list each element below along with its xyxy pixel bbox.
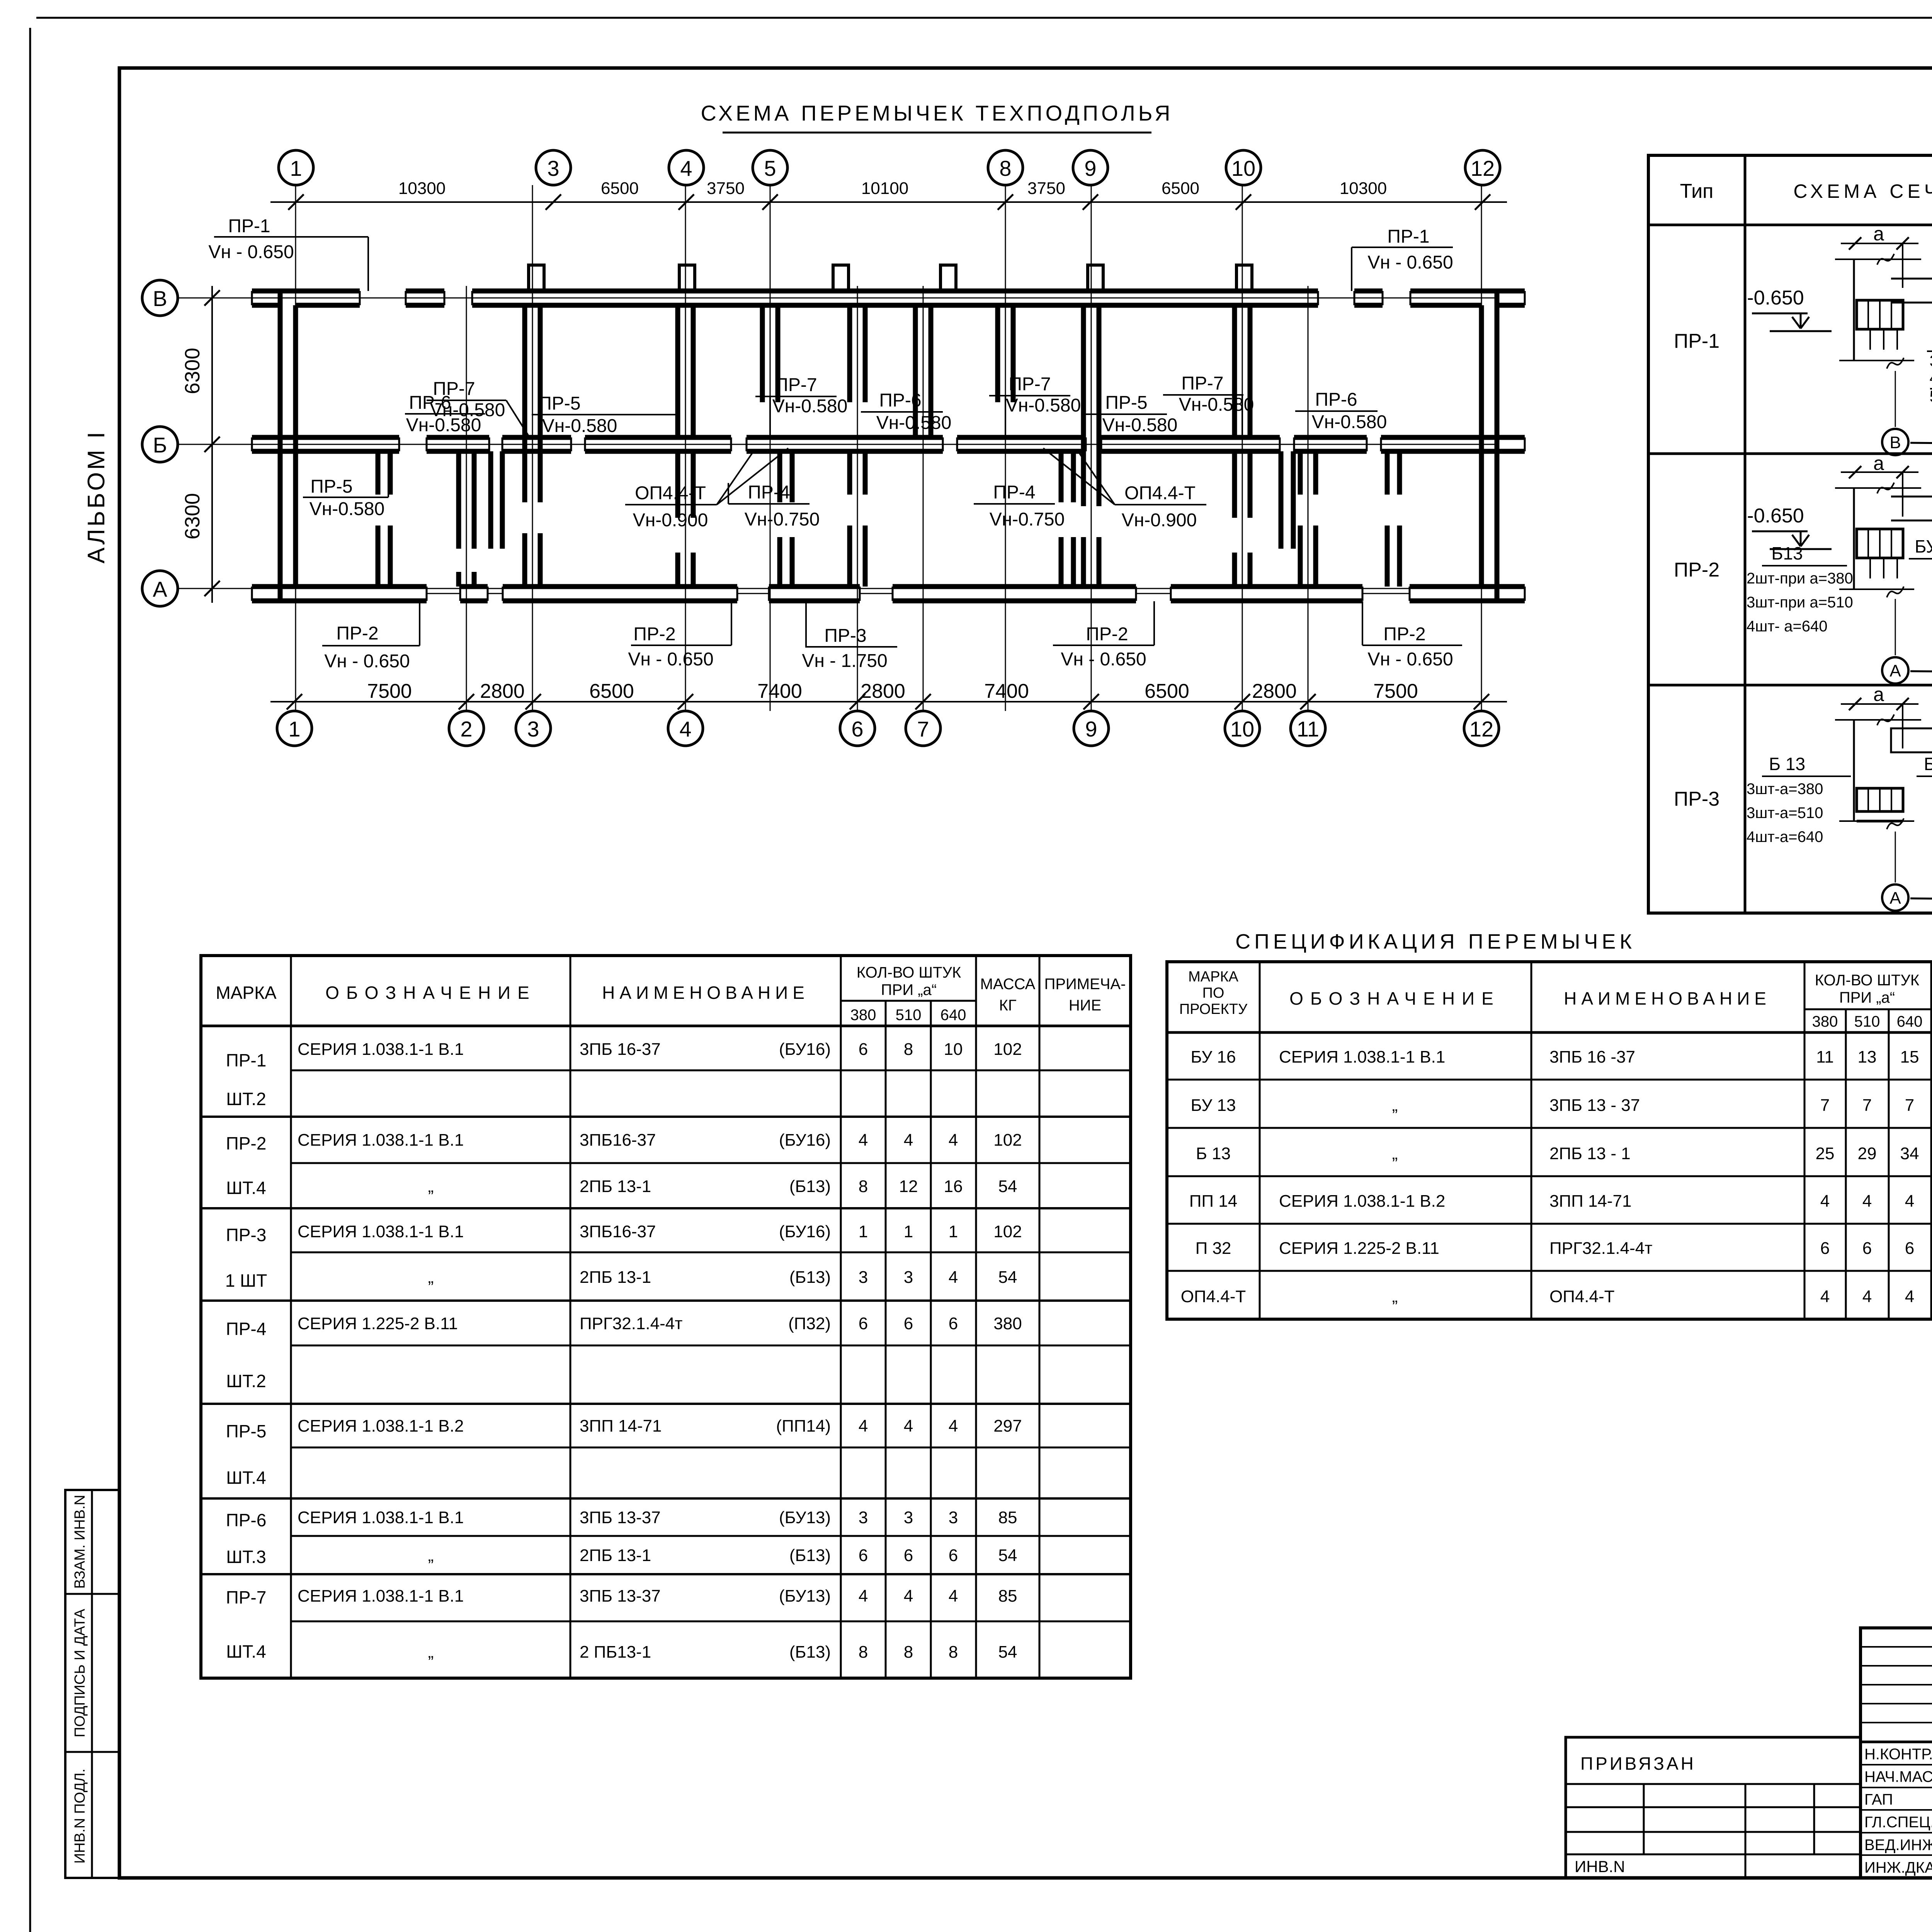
svg-text:640: 640 [940, 1007, 966, 1024]
title block frame [1861, 1628, 1932, 1878]
svg-text:102: 102 [993, 1131, 1022, 1150]
svg-text:Б 13: Б 13 [1769, 754, 1805, 774]
top dimension line [270, 201, 1507, 203]
svg-text:ШТ.4: ШТ.4 [226, 1641, 266, 1662]
svg-text:6: 6 [859, 1314, 868, 1333]
svg-text:ПР-2: ПР-2 [633, 624, 675, 645]
svg-text:НАИМЕНОВАНИЕ: НАИМЕНОВАНИЕ [602, 983, 809, 1003]
svg-text:КГ: КГ [999, 997, 1017, 1014]
label ПР-4 right [974, 482, 1065, 530]
svg-text:„: „ [428, 1177, 434, 1196]
svg-text:3ПБ 13-37: 3ПБ 13-37 [580, 1587, 661, 1605]
svg-text:85: 85 [998, 1508, 1017, 1527]
svg-text:3750: 3750 [707, 179, 745, 198]
svg-text:МАРКА: МАРКА [216, 983, 276, 1003]
svg-text:4шт- а=640: 4шт- а=640 [1747, 618, 1827, 635]
svg-text:4: 4 [1862, 1287, 1872, 1306]
svg-text:ВЗАМ. ИНВ.N: ВЗАМ. ИНВ.N [72, 1495, 88, 1588]
svg-text:СЕРИЯ 1.038.1-1 В.1: СЕРИЯ 1.038.1-1 В.1 [298, 1222, 464, 1241]
svg-text:МАССА: МАССА [980, 976, 1036, 993]
svg-text:(Б13): (Б13) [789, 1643, 831, 1662]
svg-text:510: 510 [1854, 1013, 1880, 1030]
label ПР-2 bottom 1 [322, 601, 420, 672]
svg-text:ПР-7: ПР-7 [1009, 374, 1051, 395]
svg-text:54: 54 [998, 1268, 1017, 1287]
svg-text:Vн-0.750: Vн-0.750 [990, 509, 1065, 530]
svg-text:Vн-0.900: Vн-0.900 [633, 510, 708, 531]
exterior wall row А outer(lower) line [280, 599, 427, 604]
svg-text:2800: 2800 [1252, 680, 1297, 702]
svg-text:1: 1 [288, 717, 300, 741]
svg-text:6: 6 [1862, 1239, 1872, 1258]
svg-text:(БУ16): (БУ16) [779, 1131, 831, 1150]
svg-text:4: 4 [859, 1417, 868, 1435]
label ПР-6 left [405, 393, 485, 435]
svg-text:1: 1 [949, 1222, 958, 1241]
label ПР-7 axis3 [427, 379, 529, 436]
svg-text:БУ 16: БУ 16 [1924, 754, 1932, 774]
svg-text:ПР-6: ПР-6 [879, 390, 921, 411]
svg-text:54: 54 [998, 1643, 1017, 1662]
svg-text:-0.650: -0.650 [1747, 505, 1804, 527]
svg-text:3ПБ16-37: 3ПБ16-37 [580, 1131, 656, 1150]
svg-text:ШТ.2: ШТ.2 [226, 1371, 266, 1391]
svg-text:„: „ [428, 1268, 434, 1287]
svg-text:ПР-4: ПР-4 [226, 1319, 267, 1339]
svg-text:ПР-4: ПР-4 [993, 482, 1035, 503]
svg-text:5 ШТ ПРИ а=640: 5 ШТ ПРИ а=640 [1930, 387, 1932, 405]
svg-text:ПР-4: ПР-4 [748, 482, 790, 503]
outer thin border [36, 17, 1932, 19]
svg-text:3шт-а=510: 3шт-а=510 [1747, 804, 1823, 821]
svg-text:1: 1 [859, 1222, 868, 1241]
svg-text:ШТ.4: ШТ.4 [226, 1178, 266, 1198]
svg-text:СЕРИЯ 1.225-2 В.11: СЕРИЯ 1.225-2 В.11 [298, 1314, 458, 1333]
svg-text:3ПБ 16 -37: 3ПБ 16 -37 [1549, 1048, 1635, 1066]
svg-text:ОБОЗНАЧЕНИЕ: ОБОЗНАЧЕНИЕ [1289, 988, 1500, 1009]
svg-text:3шт-а=380: 3шт-а=380 [1747, 781, 1823, 798]
svg-text:4: 4 [949, 1417, 958, 1435]
svg-text:3ПП 14-71: 3ПП 14-71 [580, 1417, 662, 1435]
svg-text:ПР-2: ПР-2 [1674, 559, 1719, 581]
svg-text:380: 380 [1812, 1013, 1838, 1030]
svg-text:3: 3 [904, 1508, 913, 1527]
svg-text:Vн - 0.650: Vн - 0.650 [1367, 252, 1453, 273]
svg-text:6: 6 [904, 1546, 913, 1565]
svg-text:4: 4 [904, 1131, 913, 1150]
svg-text:12: 12 [1469, 717, 1493, 741]
svg-text:ПРИМЕЧА-: ПРИМЕЧА- [1044, 976, 1126, 993]
svg-text:3: 3 [527, 717, 539, 741]
svg-text:7: 7 [917, 717, 929, 741]
label ПР-6 mid [861, 390, 951, 433]
svg-text:3: 3 [859, 1508, 868, 1527]
svg-text:(БУ13): (БУ13) [779, 1508, 831, 1527]
svg-text:НИЕ: НИЕ [1069, 997, 1101, 1014]
svg-text:102: 102 [993, 1222, 1022, 1241]
svg-text:МАРКА: МАРКА [1188, 969, 1238, 985]
svg-text:ПО: ПО [1202, 985, 1225, 1001]
svg-text:ИНЖ.ДКАТ.: ИНЖ.ДКАТ. [1864, 1859, 1932, 1876]
svg-text:ПР-3: ПР-3 [1674, 788, 1719, 810]
svg-text:А: А [153, 577, 167, 601]
svg-text:2ПБ 13-1: 2ПБ 13-1 [580, 1268, 651, 1287]
svg-text:4: 4 [859, 1131, 868, 1150]
svg-text:4: 4 [1905, 1192, 1914, 1211]
svg-text:8: 8 [859, 1177, 868, 1196]
vent protrusions on wall В [529, 265, 544, 291]
interior wall row Б lower line [280, 449, 399, 454]
svg-text:ПП 14: ПП 14 [1189, 1192, 1237, 1211]
svg-text:9: 9 [1084, 156, 1096, 180]
svg-text:4: 4 [1820, 1287, 1830, 1306]
svg-text:1 ШТ: 1 ШТ [225, 1270, 267, 1291]
svg-text:3 ШТ ПРИ а=380: 3 ШТ ПРИ а=380 [1930, 352, 1932, 370]
svg-text:(Б13): (Б13) [789, 1177, 831, 1196]
svg-text:6: 6 [1905, 1239, 1914, 1258]
svg-text:4: 4 [1905, 1287, 1914, 1306]
label ПР-6 right [1295, 389, 1387, 432]
svg-text:3ПБ 13 - 37: 3ПБ 13 - 37 [1549, 1096, 1640, 1115]
svg-text:3ПП 14-71: 3ПП 14-71 [1549, 1192, 1631, 1211]
svg-text:4: 4 [1862, 1192, 1872, 1211]
svg-text:(БУ13): (БУ13) [779, 1587, 831, 1605]
svg-text:ПР-2: ПР-2 [1086, 624, 1128, 645]
svg-text:ПР-1: ПР-1 [1674, 330, 1719, 352]
svg-text:15: 15 [1900, 1048, 1919, 1066]
section ПР-2 sketch [1747, 452, 1932, 685]
svg-text:1: 1 [904, 1222, 913, 1241]
svg-text:СЕРИЯ 1.225-2 В.11: СЕРИЯ 1.225-2 В.11 [1279, 1239, 1439, 1258]
svg-text:4: 4 [949, 1268, 958, 1287]
svg-text:В: В [153, 286, 167, 311]
svg-text:4шт-а=640: 4шт-а=640 [1747, 828, 1823, 845]
svg-text:7500: 7500 [367, 680, 412, 702]
svg-text:4: 4 [680, 156, 692, 180]
svg-text:ПР-5: ПР-5 [226, 1421, 267, 1441]
svg-text:6: 6 [851, 717, 863, 741]
svg-text:1: 1 [290, 156, 302, 180]
privyazan table [1566, 1737, 1861, 1878]
label ПР-4 left [728, 482, 820, 530]
svg-text:380: 380 [850, 1007, 876, 1024]
svg-text:ПР-7: ПР-7 [433, 379, 475, 399]
svg-text:„: „ [1392, 1144, 1398, 1163]
svg-text:510: 510 [896, 1007, 922, 1024]
svg-text:ИНВ.N ПОДЛ.: ИНВ.N ПОДЛ. [72, 1769, 88, 1864]
svg-text:Б13: Б13 [1771, 543, 1803, 563]
svg-text:ШТ.3: ШТ.3 [226, 1547, 266, 1567]
left spec table frame [201, 956, 1131, 1678]
svg-text:3ПБ 16-37: 3ПБ 16-37 [580, 1040, 661, 1059]
svg-text:а: а [1873, 223, 1884, 245]
svg-text:СЕРИЯ 1.038.1-1 В.1: СЕРИЯ 1.038.1-1 В.1 [298, 1587, 464, 1605]
bottom dimension line [270, 701, 1507, 702]
svg-text:А: А [1889, 889, 1901, 908]
label ПР-7 axis10 [1163, 373, 1254, 436]
svg-text:6: 6 [949, 1314, 958, 1333]
svg-text:БУ 13: БУ 13 [1191, 1096, 1236, 1115]
svg-text:29: 29 [1858, 1144, 1877, 1163]
svg-text:ПРГ32.1.4-4т: ПРГ32.1.4-4т [1549, 1239, 1652, 1258]
label ПР-1 left [208, 216, 368, 291]
svg-text:6500: 6500 [1162, 179, 1199, 198]
label ПР-2 bottom 4 [1362, 601, 1462, 670]
svg-text:ГЛ.СПЕЦ.: ГЛ.СПЕЦ. [1864, 1814, 1932, 1831]
svg-text:10100: 10100 [861, 179, 908, 198]
svg-text:Б 13: Б 13 [1196, 1144, 1231, 1163]
svg-text:6: 6 [904, 1314, 913, 1333]
svg-text:Н.КОНТР.: Н.КОНТР. [1864, 1746, 1932, 1763]
svg-text:ПР-7: ПР-7 [226, 1587, 267, 1607]
exterior wall row В outer line [280, 289, 360, 294]
svg-text:П 32: П 32 [1196, 1239, 1231, 1258]
svg-text:8: 8 [949, 1643, 958, 1662]
svg-text:ПР-1: ПР-1 [226, 1050, 267, 1070]
label ПР-1 right [1352, 226, 1453, 291]
svg-text:3: 3 [547, 156, 559, 180]
svg-text:СЕРИЯ 1.038.1-1 В.1: СЕРИЯ 1.038.1-1 В.1 [1279, 1048, 1445, 1066]
wall Б door end caps [398, 437, 400, 451]
svg-text:ПРИВЯЗАН: ПРИВЯЗАН [1580, 1753, 1696, 1774]
svg-text:ПР-1: ПР-1 [1387, 226, 1429, 247]
svg-text:2800: 2800 [480, 680, 525, 702]
svg-text:Vн - 0.650: Vн - 0.650 [1061, 649, 1146, 670]
svg-text:7: 7 [1820, 1096, 1830, 1115]
svg-text:ПРОЕКТУ: ПРОЕКТУ [1179, 1001, 1248, 1017]
svg-text:10: 10 [1230, 717, 1254, 741]
svg-text:5: 5 [764, 156, 776, 180]
svg-text:640: 640 [1897, 1013, 1923, 1030]
svg-text:ОП4.4-Т: ОП4.4-Т [1549, 1287, 1615, 1306]
svg-text:102: 102 [993, 1040, 1022, 1059]
svg-text:(П32): (П32) [788, 1314, 831, 1333]
svg-text:3750: 3750 [1027, 179, 1065, 198]
vertical axis lines [295, 185, 296, 711]
svg-text:СЕРИЯ 1.038.1-1 В.2: СЕРИЯ 1.038.1-1 В.2 [1279, 1192, 1445, 1211]
svg-text:8: 8 [904, 1643, 913, 1662]
svg-text:(Б13): (Б13) [789, 1268, 831, 1287]
svg-text:(БУ16): (БУ16) [779, 1222, 831, 1241]
svg-text:380: 380 [993, 1314, 1022, 1333]
svg-text:3шт-при а=510: 3шт-при а=510 [1747, 594, 1853, 611]
svg-text:ПР-2: ПР-2 [226, 1133, 267, 1153]
svg-text:БУ 16: БУ 16 [1191, 1048, 1236, 1066]
svg-text:4: 4 [679, 717, 691, 741]
svg-text:Vн-0.750: Vн-0.750 [745, 509, 820, 530]
svg-text:ПР-7: ПР-7 [775, 375, 817, 395]
svg-text:7500: 7500 [1373, 680, 1418, 702]
svg-text:Vн-0.580: Vн-0.580 [430, 400, 505, 420]
svg-text:2шт-при а=380: 2шт-при а=380 [1747, 570, 1853, 587]
svg-text:ОП4.4-Т: ОП4.4-Т [1124, 483, 1196, 503]
svg-text:АЛЬБОМ I: АЛЬБОМ I [83, 430, 110, 563]
svg-text:ПР-3: ПР-3 [226, 1225, 267, 1245]
svg-text:7: 7 [1905, 1096, 1914, 1115]
svg-text:Vн - 1.750: Vн - 1.750 [802, 651, 887, 671]
svg-text:ПР-3: ПР-3 [824, 626, 866, 646]
svg-text:Vн-0.580: Vн-0.580 [876, 413, 952, 433]
label ПР-5 right [1086, 393, 1177, 435]
svg-text:а: а [1873, 452, 1884, 474]
svg-text:2ПБ 13 - 1: 2ПБ 13 - 1 [1549, 1144, 1631, 1163]
svg-text:СЕРИЯ 1.038.1-1 В.1: СЕРИЯ 1.038.1-1 В.1 [298, 1040, 464, 1059]
svg-text:3ПБ 13-37: 3ПБ 13-37 [580, 1508, 661, 1527]
svg-text:Vн-0.580: Vн-0.580 [772, 396, 848, 417]
bottom grid circles [277, 711, 312, 746]
interior wall row Б upper line [280, 435, 399, 440]
svg-text:ОБОЗНАЧЕНИЕ: ОБОЗНАЧЕНИЕ [325, 983, 536, 1003]
svg-text:25: 25 [1816, 1144, 1835, 1163]
svg-text:(БУ16): (БУ16) [779, 1040, 831, 1059]
svg-text:34: 34 [1900, 1144, 1919, 1163]
svg-text:„: „ [1392, 1096, 1398, 1115]
svg-text:ПРИ „а“: ПРИ „а“ [881, 981, 937, 998]
svg-text:6: 6 [1820, 1239, 1830, 1258]
label ОП4.4-Т right [1078, 451, 1206, 531]
middle spec table frame [1167, 962, 1932, 1319]
svg-text:3: 3 [859, 1268, 868, 1287]
svg-text:ПР-6: ПР-6 [1315, 389, 1357, 410]
section ПР-1 sketch [1747, 223, 1932, 457]
svg-text:8: 8 [904, 1040, 913, 1059]
left grid circles [142, 280, 178, 316]
svg-text:12: 12 [899, 1177, 918, 1196]
svg-text:ИНВ.N: ИНВ.N [1575, 1857, 1625, 1876]
svg-text:10: 10 [1231, 156, 1255, 180]
svg-text:12: 12 [1471, 156, 1495, 180]
svg-text:13: 13 [1858, 1048, 1877, 1066]
svg-text:2: 2 [460, 717, 472, 741]
svg-text:ГАП: ГАП [1864, 1791, 1893, 1808]
svg-text:6500: 6500 [589, 680, 634, 702]
svg-text:Тип: Тип [1680, 180, 1714, 202]
vertical walls [278, 291, 283, 601]
svg-text:ПР-7: ПР-7 [1181, 373, 1223, 394]
svg-text:ВЕД.ИНЖ.: ВЕД.ИНЖ. [1864, 1837, 1932, 1854]
svg-text:ПР-2: ПР-2 [1383, 624, 1425, 645]
svg-text:ПРИ „а“: ПРИ „а“ [1839, 989, 1895, 1006]
svg-text:СПЕЦИФИКАЦИЯ ПЕРЕМЫЧЕК: СПЕЦИФИКАЦИЯ ПЕРЕМЫЧЕК [1235, 930, 1636, 953]
left margin rotated boxes [65, 1490, 119, 1878]
svg-text:-0.650: -0.650 [1747, 287, 1804, 309]
svg-text:2 ПБ13-1: 2 ПБ13-1 [580, 1643, 651, 1662]
svg-text:3: 3 [904, 1268, 913, 1287]
svg-text:НАИМЕНОВАНИЕ: НАИМЕНОВАНИЕ [1564, 988, 1771, 1009]
section table 1 frame [1648, 155, 1932, 913]
svg-text:2ПБ 13-1: 2ПБ 13-1 [580, 1177, 651, 1196]
svg-text:2800: 2800 [861, 680, 905, 702]
svg-text:„: „ [428, 1546, 434, 1565]
left dimension line [211, 286, 213, 603]
svg-text:КОЛ-ВО ШТУК: КОЛ-ВО ШТУК [1815, 972, 1920, 989]
svg-text:4: 4 [859, 1587, 868, 1605]
wall А opening thin lines [427, 593, 460, 594]
svg-text:Vн-0.580: Vн-0.580 [1312, 412, 1387, 432]
svg-text:11: 11 [1297, 717, 1319, 741]
exterior wall row В inner line [296, 303, 360, 308]
svg-text:4: 4 [949, 1131, 958, 1150]
svg-text:4: 4 [904, 1417, 913, 1435]
svg-text:4: 4 [949, 1587, 958, 1605]
svg-text:ШТ.2: ШТ.2 [226, 1089, 266, 1109]
svg-text:СХЕМА СЕЧЕНИЯ: СХЕМА СЕЧЕНИЯ [1793, 180, 1932, 202]
horizontal axis lines [178, 298, 1497, 299]
svg-text:10300: 10300 [398, 179, 446, 198]
svg-text:ОП4.4-Т: ОП4.4-Т [635, 483, 706, 503]
svg-text:10300: 10300 [1340, 179, 1387, 198]
svg-text:297: 297 [993, 1417, 1022, 1435]
svg-text:6300: 6300 [181, 348, 204, 394]
label ПР-7 axis8 [989, 374, 1081, 436]
svg-text:54: 54 [998, 1177, 1017, 1196]
svg-text:Vн - 0.650: Vн - 0.650 [324, 651, 410, 672]
svg-text:А: А [1889, 662, 1901, 680]
section ПР-3 sketch [1747, 684, 1932, 913]
svg-text:8: 8 [859, 1643, 868, 1662]
svg-text:а: а [1873, 684, 1884, 705]
svg-text:6300: 6300 [181, 493, 204, 539]
svg-text:Vн - 0.650: Vн - 0.650 [628, 649, 713, 670]
svg-text:СЕРИЯ 1.038.1-1 В.1: СЕРИЯ 1.038.1-1 В.1 [298, 1131, 464, 1150]
svg-text:6: 6 [859, 1040, 868, 1059]
label ПР-2 bottom 2 [628, 601, 731, 670]
svg-text:Vн-0.580: Vн-0.580 [1006, 395, 1081, 416]
svg-text:Vн-0.580: Vн-0.580 [542, 416, 617, 436]
exterior wall row А inner(upper) line [280, 584, 427, 589]
svg-text:ПР-5: ПР-5 [1105, 393, 1147, 413]
svg-text:6: 6 [949, 1546, 958, 1565]
svg-text:НАЧ.МАСТ.: НАЧ.МАСТ. [1864, 1769, 1932, 1786]
svg-text:В: В [1889, 433, 1901, 452]
svg-text:Vн-0.900: Vн-0.900 [1122, 510, 1197, 531]
label ПР-3 bottom [802, 601, 897, 671]
svg-text:54: 54 [998, 1546, 1017, 1565]
svg-text:6: 6 [859, 1546, 868, 1565]
svg-text:„: „ [428, 1643, 434, 1662]
svg-text:ПР-2: ПР-2 [336, 623, 378, 644]
svg-text:БУ16: БУ16 [1915, 536, 1932, 556]
svg-text:СЕРИЯ 1.038.1-1 В.2: СЕРИЯ 1.038.1-1 В.2 [298, 1417, 464, 1435]
svg-text:9: 9 [1085, 717, 1097, 741]
svg-text:СХЕМА ПЕРЕМЫЧЕК ТЕХПОДПОЛЬЯ: СХЕМА ПЕРЕМЫЧЕК ТЕХПОДПОЛЬЯ [701, 101, 1173, 125]
wall В window thin lines [360, 298, 406, 299]
label ПР-5 mid-left [532, 393, 677, 436]
label ПР-5 lower-left [303, 453, 388, 519]
svg-text:4 ШТ ПРИ а=510: 4 ШТ ПРИ а=510 [1930, 369, 1932, 387]
svg-text:6500: 6500 [601, 179, 639, 198]
label ПР-7 axis5 [755, 375, 847, 436]
wall end tabs left/right [252, 289, 280, 294]
svg-text:16: 16 [944, 1177, 963, 1196]
svg-text:7400: 7400 [757, 680, 802, 702]
left spec table header row [201, 1025, 1131, 1027]
top grid circles [279, 150, 313, 185]
svg-text:3ПБ16-37: 3ПБ16-37 [580, 1222, 656, 1241]
svg-text:СЕРИЯ 1.038.1-1 В.1: СЕРИЯ 1.038.1-1 В.1 [298, 1508, 464, 1527]
svg-text:85: 85 [998, 1587, 1017, 1605]
svg-text:Vн - 0.650: Vн - 0.650 [1367, 649, 1453, 670]
svg-text:3: 3 [949, 1508, 958, 1527]
svg-text:4: 4 [904, 1587, 913, 1605]
svg-text:(Б13): (Б13) [789, 1546, 831, 1565]
svg-text:11: 11 [1816, 1048, 1834, 1066]
svg-text:(ПП14): (ПП14) [776, 1417, 831, 1435]
svg-text:4: 4 [1820, 1192, 1830, 1211]
svg-text:8: 8 [999, 156, 1011, 180]
svg-text:Vн-0.580: Vн-0.580 [1102, 415, 1178, 435]
svg-text:ПРГ32.1.4-4т: ПРГ32.1.4-4т [580, 1314, 682, 1333]
